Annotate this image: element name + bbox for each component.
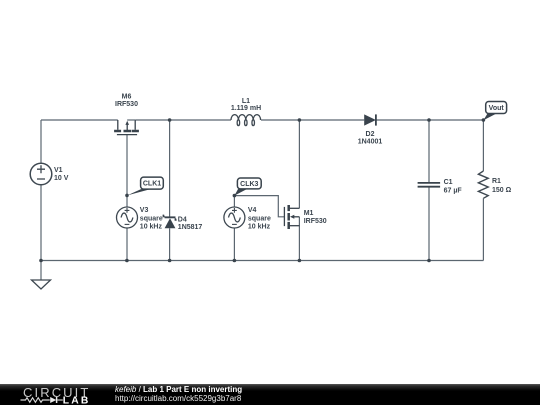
svg-text:M6: M6: [122, 94, 132, 101]
svg-text:square: square: [248, 215, 271, 222]
svg-text:C1: C1: [444, 179, 453, 186]
svg-text:10 V: 10 V: [54, 175, 69, 182]
svg-text:10 kHz: 10 kHz: [248, 223, 271, 230]
svg-text:1N4001: 1N4001: [358, 139, 383, 146]
svg-text:IRF530: IRF530: [304, 218, 327, 225]
svg-text:square: square: [140, 215, 163, 222]
svg-text:IRF530: IRF530: [115, 101, 138, 108]
svg-text:M1: M1: [304, 210, 314, 217]
svg-text:1.119 mH: 1.119 mH: [231, 105, 261, 112]
svg-text:10 kHz: 10 kHz: [140, 223, 163, 230]
svg-text:150 Ω: 150 Ω: [492, 187, 512, 194]
svg-text:V3: V3: [140, 207, 149, 214]
svg-text:CLK1: CLK1: [143, 181, 161, 188]
svg-text:Vout: Vout: [489, 105, 505, 112]
svg-text:V4: V4: [248, 207, 257, 214]
svg-text:LAB: LAB: [63, 396, 91, 405]
svg-text:R1: R1: [492, 178, 501, 185]
svg-text:1N5817: 1N5817: [178, 224, 203, 231]
svg-text:67 µF: 67 µF: [444, 188, 463, 195]
svg-text:D4: D4: [178, 217, 187, 224]
svg-text:L1: L1: [242, 98, 250, 105]
svg-text:D2: D2: [366, 131, 375, 138]
svg-text:V1: V1: [54, 167, 63, 174]
svg-text:CLK3: CLK3: [240, 181, 258, 188]
